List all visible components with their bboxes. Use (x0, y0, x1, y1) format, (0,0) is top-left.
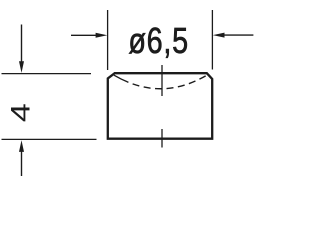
dimension 4 top extension line (2, 73, 92, 75)
dimension 4 bottom extension line (2, 138, 97, 140)
dimension ø6,5 left arrow shaft (71, 34, 97, 36)
part outline (chamfered cap, side view) (108, 73, 212, 139)
centerline lower segment (161, 129, 163, 148)
dimension ø6,5 right arrow shaft (224, 34, 254, 36)
dimension 4 up arrow shaft (21, 151, 23, 176)
hidden recess arc (dashed) (114, 75, 207, 89)
dimension 4 down arrow shaft (21, 25, 23, 64)
svg-text:4: 4 (6, 103, 36, 122)
svg-text:ø6,5: ø6,5 (128, 20, 189, 61)
dimension ø6,5 left extension line (107, 10, 109, 70)
dimension 4 up arrowhead (19, 140, 24, 152)
dimension 4 down arrowhead (19, 61, 24, 73)
centerline upper segment (161, 65, 163, 96)
dimension ø6,5 left arrowhead (96, 33, 108, 38)
dimension ø6,5 right arrowhead (213, 33, 225, 38)
dimension ø6,5 right extension line (211, 10, 213, 70)
